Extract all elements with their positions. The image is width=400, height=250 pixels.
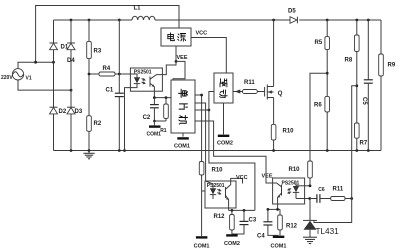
resistor R2 <box>87 116 102 151</box>
resistor R7 <box>355 123 368 151</box>
diode D4 <box>67 20 75 64</box>
wire: opto3 LED anode to R10 <box>296 184 311 187</box>
resistor R12 (opto2) <box>214 210 235 234</box>
svg-text:D3: D3 <box>75 109 83 115</box>
diode D2 <box>50 107 67 150</box>
svg-text:TL431: TL431 <box>316 227 340 236</box>
svg-text:L1: L1 <box>134 6 142 12</box>
svg-text:C3: C3 <box>249 217 257 223</box>
wire: outer top loop from AC line to power module <box>36 6 179 63</box>
svg-text:COM2: COM2 <box>224 241 240 247</box>
svg-text:R1: R1 <box>160 128 167 134</box>
source V1 (220V AC) <box>1 69 32 82</box>
node VEE label (opto3) <box>262 173 273 179</box>
svg-text:PS2501: PS2501 <box>207 183 225 189</box>
resistor R10 (opto3 pull-up) <box>289 161 313 186</box>
opto-coupler U3 PS2501 <box>273 178 305 209</box>
svg-text:R6: R6 <box>314 103 322 109</box>
svg-text:V1: V1 <box>26 76 32 82</box>
wire: Q drain to rail <box>273 20 275 87</box>
wire: MCU to COM1 ground <box>174 133 190 150</box>
power module U-power (dianyuan) <box>161 28 191 46</box>
wire: source bottom terminal to bridge midpoint <box>18 80 72 92</box>
svg-text:R3: R3 <box>94 49 102 55</box>
svg-text:D5: D5 <box>288 9 296 15</box>
wire: top DC rail <box>54 19 382 22</box>
wire: source top terminal to bridge midpoint <box>18 61 55 69</box>
svg-text:COM1: COM1 <box>174 144 190 150</box>
resistor R11 (gate) <box>233 80 265 93</box>
transistor Q (MOSFET) <box>265 85 283 100</box>
diode D1 <box>50 20 69 51</box>
resistor R6 <box>314 96 330 150</box>
capacitor C5 <box>361 20 373 151</box>
TL431 shunt regulator <box>303 199 339 238</box>
svg-text:C4: C4 <box>257 234 265 240</box>
svg-text:COM1: COM1 <box>194 243 210 249</box>
node VCC stub (opto2 collector) <box>231 175 248 183</box>
ground COM1 (C2/R1) <box>147 125 162 137</box>
resistor R5 <box>315 20 330 96</box>
svg-text:C1: C1 <box>106 87 114 93</box>
svg-text:R7: R7 <box>360 141 368 147</box>
wire: D1/D2 column <box>53 50 55 107</box>
wire: MCU pin to R10 (opto2 drive) <box>195 94 203 162</box>
svg-text:D2: D2 <box>59 109 67 115</box>
svg-text:R11: R11 <box>333 186 344 192</box>
wire: opto2 LED column to COM1 <box>202 175 205 236</box>
resistor R4 <box>88 66 131 76</box>
wire: VCC to driver <box>191 38 226 74</box>
svg-text:COM1: COM1 <box>147 131 162 137</box>
svg-text:VCC: VCC <box>236 175 248 181</box>
wire: opto1 LED cathode to bus <box>125 84 138 151</box>
resistor R8 <box>345 20 360 123</box>
svg-text:Q: Q <box>278 91 283 97</box>
svg-text:R5: R5 <box>315 40 323 46</box>
wire: opto1 emitter node to MCU <box>153 91 171 99</box>
resistor R12 (opto3) <box>278 209 298 235</box>
diode D3 <box>67 107 83 150</box>
wire: opto3 emitter node <box>267 208 281 211</box>
capacitor C4 <box>257 209 279 239</box>
resistor R10 (opto2) <box>199 162 223 176</box>
capacitor C3 <box>232 210 257 234</box>
opto-coupler U2 PS2501 <box>205 181 236 210</box>
svg-text:VCC: VCC <box>196 31 208 37</box>
capacitor C1 <box>106 20 124 151</box>
wire: MCU pin joining driver input, down to opto2 emitter node <box>195 92 255 211</box>
svg-text:R4: R4 <box>103 66 111 72</box>
resistor R3 <box>87 20 102 116</box>
ground (TL431) <box>303 237 317 243</box>
node VEE label <box>177 55 188 61</box>
wire: opto3 LED cathode node <box>296 197 311 200</box>
wire: TL431 ref loop <box>314 199 352 223</box>
diode D5 <box>288 9 297 24</box>
resistor R10 (source) <box>271 98 294 151</box>
wire: opto2 emitter node <box>229 209 255 212</box>
ground COM1 (opto3) <box>271 236 287 250</box>
ground COM2 (opto2) <box>224 234 240 247</box>
wire: driver to COM2 ground <box>217 103 233 147</box>
svg-text:R10: R10 <box>212 168 224 174</box>
svg-text:R12: R12 <box>286 223 298 229</box>
wire: MCU pin to opto2 LED anode <box>195 103 206 181</box>
capacitor C2 <box>143 98 159 121</box>
svg-text:R9: R9 <box>388 63 396 69</box>
MCU (danpianji) <box>171 80 195 133</box>
ground (mains side) <box>83 151 94 159</box>
wire: C2/R1 junction to COM1 <box>153 120 166 126</box>
svg-text:VEE: VEE <box>177 55 188 61</box>
svg-text:COM2: COM2 <box>217 141 233 147</box>
wire: D4/D3 column <box>70 50 72 107</box>
driver module (qudong) <box>214 73 233 103</box>
resistor R1 <box>160 98 168 134</box>
svg-text:R10: R10 <box>283 129 295 135</box>
wire: feedback to R8/R7 divider tap <box>352 86 357 199</box>
node VCC label <box>196 31 208 37</box>
svg-text:R11: R11 <box>244 80 255 86</box>
inductor L1 <box>132 6 155 20</box>
op-to-coupler U1 PS2501 <box>130 68 162 91</box>
resistor R11 (feedback) <box>331 186 353 200</box>
ground COM1 (opto2 LED) <box>194 236 210 249</box>
wire: MCU pin to VEE opto3 collector <box>195 121 273 183</box>
wire: bottom bus <box>54 149 382 152</box>
svg-text:R10: R10 <box>289 167 301 173</box>
svg-text:VEE: VEE <box>262 173 273 179</box>
svg-text:R2: R2 <box>94 121 102 127</box>
wire: VEE stem and branches <box>162 46 185 80</box>
capacitor C6 <box>310 187 331 203</box>
svg-text:R12: R12 <box>214 214 226 220</box>
svg-text:220V: 220V <box>1 75 13 81</box>
wire: R5/R6 tap to opto3 pull-up <box>310 73 327 161</box>
svg-text:COM1: COM1 <box>271 243 287 249</box>
resistor R9 <box>379 20 396 151</box>
svg-text:C6: C6 <box>318 187 325 193</box>
svg-text:C5: C5 <box>361 97 367 105</box>
svg-text:C2: C2 <box>143 115 151 121</box>
svg-text:R8: R8 <box>345 58 353 64</box>
